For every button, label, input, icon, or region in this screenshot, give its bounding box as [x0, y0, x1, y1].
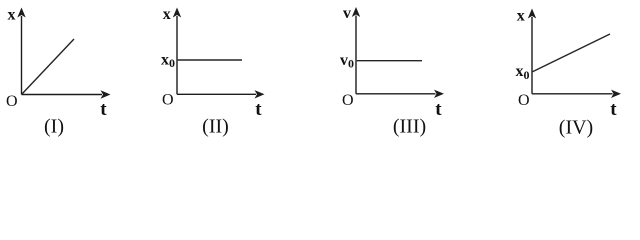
svg-text:O: O [518, 92, 530, 109]
svg-text:O: O [162, 92, 174, 109]
svg-text:O: O [6, 93, 18, 110]
svg-text:t: t [100, 99, 107, 120]
svg-text:x: x [517, 7, 525, 24]
x-axis graph I [22, 94, 103, 96]
y-axis graph II [176, 16, 178, 94]
svg-text:t: t [255, 99, 262, 120]
svg-text:v: v [343, 5, 351, 22]
curve graph I: straight line from origin [22, 39, 75, 95]
x-axis graph IV [532, 93, 613, 95]
y-axis graph IV [531, 17, 533, 94]
svg-text:x: x [8, 7, 16, 24]
y-axis graph III [355, 16, 357, 94]
svg-text:(II): (II) [202, 116, 229, 138]
y-axis graph I [21, 16, 23, 95]
svg-text:x: x [163, 6, 171, 23]
svg-text:t: t [610, 99, 617, 120]
svg-text:O: O [342, 92, 354, 109]
curve graph III: horizontal line at v0 [357, 60, 422, 62]
svg-text:t: t [435, 99, 442, 120]
curve graph IV: straight line from x0 intercept [533, 34, 611, 72]
svg-text:(I): (I) [44, 116, 64, 138]
svg-text:(IV): (IV) [559, 117, 593, 139]
x-axis graph III [356, 93, 436, 95]
x-axis graph II [177, 93, 256, 95]
svg-text:(III): (III) [393, 116, 426, 138]
curve graph II: horizontal line at x0 [178, 59, 242, 61]
